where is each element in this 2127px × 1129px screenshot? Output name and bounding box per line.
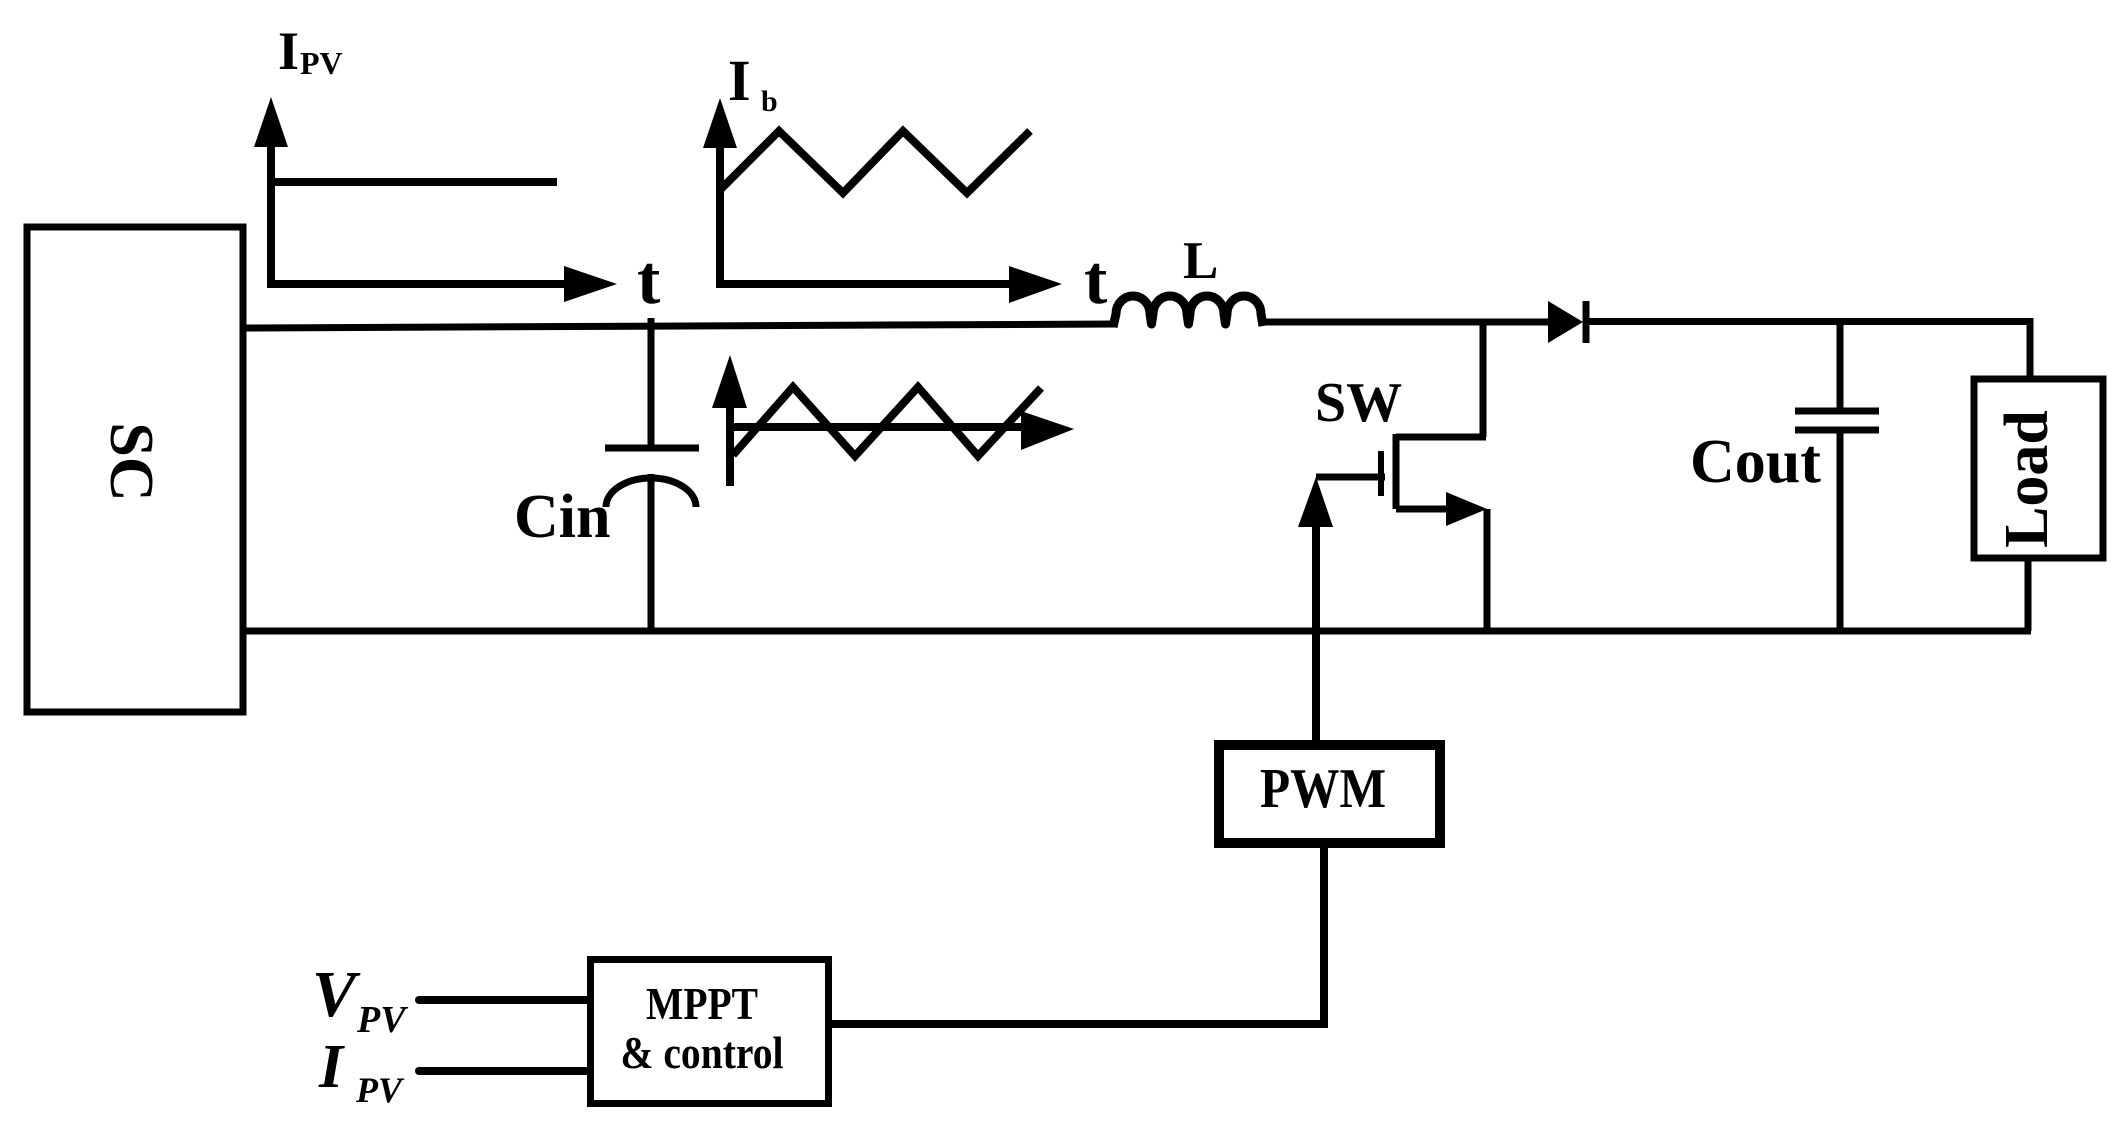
wire: source vertical to bottom rail xyxy=(1484,509,1491,631)
graph PWM ramp sawtooth waveform xyxy=(733,387,1041,456)
wire: MPPT to PWM horizontal xyxy=(830,1020,1328,1028)
svg-text:MPPT: MPPT xyxy=(646,978,758,1029)
wire: PWM output down from box xyxy=(1320,843,1328,1024)
transistor SW gate lead xyxy=(1316,474,1385,481)
supercapacitor box SC xyxy=(27,227,243,712)
graph I_b vertical axis xyxy=(716,140,724,288)
graph I_b vertical axis arrowhead xyxy=(703,98,737,148)
transistor SW source lead xyxy=(1396,506,1448,513)
wire: Cin branch vertical (top rail to Cin top plate) xyxy=(648,318,655,448)
diode D anode triangle xyxy=(1548,301,1583,343)
transistor SW channel vertical bar xyxy=(1393,434,1400,509)
wire: Cin branch vertical (Cin bottom plate to bottom rail) xyxy=(648,474,655,631)
svg-text:& control: & control xyxy=(621,1027,784,1078)
graph I_PV horizontal axis xyxy=(267,280,566,288)
capacitor Cin curved bottom plate xyxy=(606,478,696,507)
svg-text:V: V xyxy=(312,958,361,1031)
svg-text:PV: PV xyxy=(355,1070,405,1110)
wire: top rail from SC to inductor xyxy=(243,324,1117,328)
svg-text:L: L xyxy=(1183,232,1218,290)
PWM gate drive arrowhead xyxy=(1298,477,1333,527)
load box xyxy=(1974,379,2103,558)
transistor SW source arrowhead xyxy=(1446,492,1487,526)
PWM box xyxy=(1219,745,1440,843)
capacitor Cout top plate xyxy=(1795,408,1879,415)
graph I_PV vertical axis arrowhead xyxy=(254,97,288,147)
graph I_PV constant-current waveform xyxy=(275,178,557,186)
svg-text:PV: PV xyxy=(300,45,343,81)
svg-text:t: t xyxy=(1084,242,1107,319)
graph PWM ramp horizontal axis arrowhead xyxy=(1021,411,1074,450)
graph I_b triangle ripple waveform xyxy=(721,131,1030,193)
svg-text:SC: SC xyxy=(97,422,165,501)
inductor L xyxy=(1113,296,1263,327)
graph PWM ramp vertical axis arrowhead xyxy=(712,355,747,408)
graph I_b horizontal axis arrowhead xyxy=(1009,266,1062,303)
svg-text:I: I xyxy=(728,48,751,113)
graph PWM ramp horizontal axis xyxy=(727,423,1023,431)
svg-text:Load: Load xyxy=(1993,410,2061,548)
diode D cathode bar xyxy=(1583,301,1590,343)
wire: bottom rail xyxy=(243,628,2031,635)
wire: load bottom lead to bottom rail xyxy=(2025,558,2032,631)
svg-text:PWM: PWM xyxy=(1260,758,1386,820)
graph I_PV horizontal axis arrowhead xyxy=(564,266,617,302)
wire: Cout branch vertical (top rail to Cout top plate) xyxy=(1837,321,1844,409)
wire: PWM gate drive vertical (PWM box to gate arrow) xyxy=(1312,522,1320,745)
wire: I_PV input to MPPT xyxy=(419,1067,590,1075)
svg-text:Cout: Cout xyxy=(1690,428,1821,496)
graph I_PV vertical axis xyxy=(267,140,275,288)
svg-text:t: t xyxy=(637,242,660,319)
wire: drain horizontal jog xyxy=(1396,434,1486,441)
svg-text:I: I xyxy=(318,1033,345,1101)
wire: Cout branch vertical (Cout bottom plate to bottom rail) xyxy=(1837,432,1844,631)
svg-text:I: I xyxy=(278,21,299,81)
transistor SW gate bar xyxy=(1378,451,1384,496)
wire: V_PV input to MPPT xyxy=(419,996,590,1004)
svg-text:SW: SW xyxy=(1315,372,1402,434)
wire: top rail from diode to load corner xyxy=(1583,322,2030,380)
wire: drain vertical from top rail xyxy=(1480,322,1487,437)
capacitor Cout bottom plate xyxy=(1795,427,1879,434)
capacitor Cin top plate xyxy=(605,445,699,452)
svg-text:b: b xyxy=(761,85,778,118)
svg-text:Cin: Cin xyxy=(514,483,610,551)
wire: top rail from inductor to diode xyxy=(1264,319,1550,326)
graph PWM ramp vertical axis xyxy=(726,404,734,486)
graph I_b horizontal axis xyxy=(716,280,1011,288)
MPPT & control box xyxy=(591,960,829,1104)
svg-text:PV: PV xyxy=(356,999,408,1041)
